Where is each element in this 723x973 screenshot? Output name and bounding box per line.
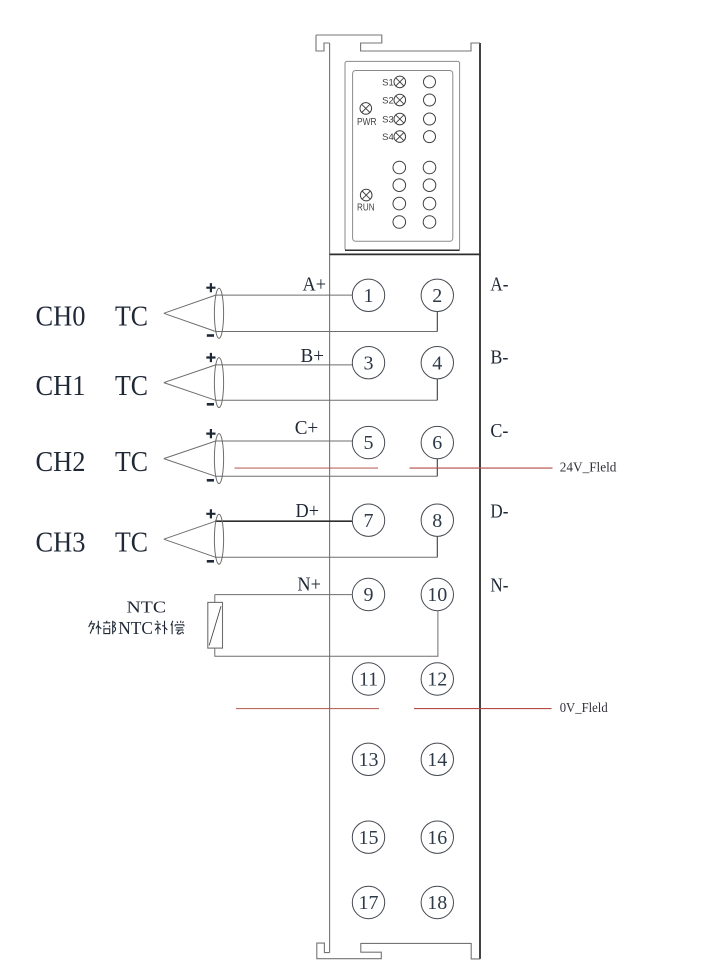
label TC for CH0: [115, 301, 148, 333]
wire A+ from thermocouple CH0 to terminal 1: [215, 294, 353, 296]
svg-text:11: 11: [359, 669, 378, 691]
svg-text:2: 2: [432, 285, 442, 307]
S2 label: [382, 95, 394, 106]
net 24V_Field red line left segment: [235, 467, 379, 469]
terminal 4: [421, 347, 453, 379]
svg-text:5: 5: [364, 432, 374, 454]
svg-text:C+: C+: [295, 417, 319, 439]
wire drop from terminal 6 to C-: [436, 459, 438, 477]
channel LED row 4 right: [423, 216, 436, 229]
LED panel inner frame: [353, 71, 453, 242]
status LED row 4 right: [424, 131, 436, 143]
status LED row 1 right: [424, 76, 436, 88]
svg-text:N-: N-: [490, 574, 508, 596]
thermocouple CH1 junction ellipse: [214, 358, 223, 408]
thermocouple CH0 triangle: [164, 295, 216, 331]
S2 LED lamp: [394, 94, 406, 106]
svg-text:CH0: CH0: [36, 301, 86, 333]
svg-text:S1: S1: [382, 77, 394, 88]
svg-text:N+: N+: [297, 574, 321, 596]
net 0V_Field red line right segment: [414, 708, 552, 710]
label C+: [295, 417, 319, 439]
wire drop from terminal 2 to A-: [436, 312, 438, 332]
S1 label: [382, 77, 394, 88]
svg-text:TC: TC: [115, 370, 148, 402]
thermocouple CH2 triangle: [164, 441, 216, 476]
svg-text:B+: B+: [301, 345, 325, 367]
svg-text:9: 9: [364, 584, 374, 606]
svg-text:NTC: NTC: [118, 618, 153, 638]
thermocouple CH0 junction ellipse: [214, 288, 223, 338]
LED panel outer frame: [345, 61, 460, 250]
label TC for CH1: [115, 370, 148, 402]
wire C- horizontal from thermocouple CH2: [215, 475, 437, 477]
NTC thermistor body: [208, 602, 223, 648]
terminal 2: [421, 279, 453, 311]
S3 label: [382, 114, 394, 125]
net 0V_Field red line left segment: [236, 708, 379, 710]
channel LED row 3 left: [393, 197, 406, 210]
svg-text:10: 10: [427, 584, 447, 606]
wire drop from terminal 4 to B-: [436, 379, 438, 400]
wire D- horizontal from thermocouple CH3: [215, 556, 437, 558]
wire B- horizontal from thermocouple CH1: [215, 399, 437, 401]
label N+: [297, 574, 321, 596]
label 外部NTC补偿 (external NTC compensation): [89, 621, 184, 634]
module body right edge: [479, 43, 481, 959]
svg-text:TC: TC: [115, 527, 148, 559]
minus polarity mark CH0: [207, 334, 214, 337]
svg-text:24V_Fleld: 24V_Fleld: [560, 460, 617, 475]
svg-text:12: 12: [427, 669, 447, 691]
svg-text:1: 1: [364, 285, 374, 307]
label N-: [490, 574, 508, 596]
thermocouple CH3 triangle: [164, 521, 216, 557]
label CH1: [36, 370, 86, 402]
channel LED row 2 right: [423, 179, 436, 192]
label A+: [303, 274, 327, 296]
svg-text:D+: D+: [296, 500, 320, 522]
label B-: [490, 347, 508, 369]
module bottom cap outline: [317, 943, 480, 959]
terminal 10: [421, 578, 453, 610]
wire from NTC bottom to terminal 10: [215, 611, 438, 657]
terminal 6: [421, 426, 453, 458]
terminal 15: [352, 821, 384, 853]
channel LED row 1 right: [423, 161, 436, 174]
plus polarity mark CH3: [206, 509, 215, 518]
module body left edge: [329, 43, 331, 953]
thermocouple CH3 junction ellipse: [214, 514, 223, 564]
svg-text:6: 6: [432, 432, 442, 454]
svg-text:A-: A-: [490, 274, 508, 296]
plus polarity mark CH2: [206, 429, 215, 438]
svg-text:18: 18: [427, 892, 447, 914]
separator line below LED panel: [330, 253, 481, 255]
svg-text:CH2: CH2: [36, 446, 86, 478]
terminal 7: [352, 504, 384, 536]
channel LED row 1 left: [393, 161, 406, 174]
net 24V_Field red line right segment: [410, 467, 553, 469]
label D+: [296, 500, 320, 522]
label 24V_Fleld: [560, 460, 617, 475]
svg-text:13: 13: [359, 749, 379, 771]
terminal 11: [352, 663, 384, 695]
wire A- horizontal from thermocouple CH0: [215, 331, 437, 333]
svg-text:3: 3: [364, 352, 374, 374]
S4 LED lamp: [394, 131, 406, 143]
svg-text:17: 17: [359, 892, 379, 914]
label B+: [301, 345, 325, 367]
label NTC inside CJK run: [118, 618, 153, 638]
terminal 17: [352, 886, 384, 918]
svg-text:CH1: CH1: [36, 370, 86, 402]
label CH0: [36, 301, 86, 333]
S3 LED lamp: [394, 113, 406, 125]
terminal 3: [352, 347, 384, 379]
svg-text:CH3: CH3: [36, 527, 86, 559]
RUN label: [357, 202, 375, 213]
wire N+ from NTC to terminal 9: [215, 595, 353, 603]
S1 LED lamp: [394, 76, 406, 88]
svg-text:4: 4: [432, 352, 442, 374]
label TC for CH2: [115, 446, 148, 478]
terminal 16: [421, 821, 453, 853]
RUN LED lamp: [360, 189, 372, 201]
terminal 5: [352, 426, 384, 458]
svg-text:RUN: RUN: [357, 202, 375, 213]
terminal 14: [421, 743, 453, 775]
wire B+ from thermocouple CH1 to terminal 3: [215, 364, 353, 366]
svg-text:TC: TC: [115, 301, 148, 333]
channel LED row 4 left: [393, 216, 406, 229]
status LED row 2 right: [424, 94, 436, 106]
label CH2: [36, 446, 86, 478]
wire C+ from thermocouple CH2 to terminal 5: [215, 440, 353, 442]
wire D+ from thermocouple CH3 to terminal 7: [215, 520, 353, 522]
module top cap outline: [316, 35, 480, 51]
label NTC: [127, 597, 167, 616]
label 0V_Fleld: [560, 700, 608, 715]
channel LED row 2 left: [393, 179, 406, 192]
svg-text:8: 8: [432, 510, 442, 532]
thermocouple CH2 junction ellipse: [214, 434, 223, 484]
minus polarity mark CH2: [207, 479, 214, 482]
label C-: [490, 420, 508, 442]
plus polarity mark CH1: [206, 353, 215, 362]
channel LED row 3 right: [423, 197, 436, 210]
terminal 13: [352, 743, 384, 775]
minus polarity mark CH3: [207, 560, 214, 563]
status LED row 3 right: [424, 113, 436, 125]
svg-text:B-: B-: [490, 347, 508, 369]
terminal 1: [352, 279, 384, 311]
terminal 8: [421, 504, 453, 536]
S4 label: [382, 132, 394, 143]
svg-text:A+: A+: [303, 274, 327, 296]
label TC for CH3: [115, 527, 148, 559]
svg-text:16: 16: [427, 827, 447, 849]
wire drop from terminal 8 to D-: [436, 536, 438, 557]
svg-text:C-: C-: [490, 420, 508, 442]
terminal 12: [421, 663, 453, 695]
terminal 9: [352, 578, 384, 610]
svg-text:NTC: NTC: [127, 597, 167, 616]
thermocouple CH1 triangle: [164, 365, 216, 400]
PWR LED lamp: [360, 103, 372, 115]
svg-text:S2: S2: [382, 95, 394, 106]
terminal 18: [421, 886, 453, 918]
minus polarity mark CH1: [207, 403, 214, 406]
PWR label: [357, 117, 377, 128]
svg-text:0V_Fleld: 0V_Fleld: [560, 700, 608, 715]
svg-text:TC: TC: [115, 446, 148, 478]
svg-text:S4: S4: [382, 132, 394, 143]
svg-text:D-: D-: [490, 501, 508, 523]
svg-text:14: 14: [427, 749, 447, 771]
svg-text:PWR: PWR: [357, 117, 377, 128]
label A-: [490, 274, 508, 296]
label CH3: [36, 527, 86, 559]
svg-text:S3: S3: [382, 114, 394, 125]
svg-text:15: 15: [359, 827, 379, 849]
label D-: [490, 501, 508, 523]
svg-text:7: 7: [364, 510, 374, 532]
plus polarity mark CH0: [206, 283, 215, 292]
